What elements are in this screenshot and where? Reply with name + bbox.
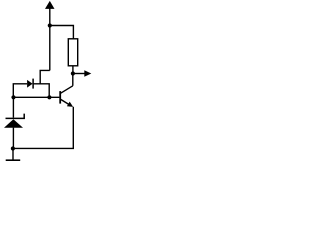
wire node A to resistor top — [50, 26, 74, 39]
wire supply drop to jog — [49, 26, 51, 71]
diode D1 triangle — [27, 80, 32, 88]
wire ground stem — [12, 149, 14, 160]
wire emitter down to bottom rail — [13, 107, 73, 149]
wire zener anode to ground rail — [12, 128, 14, 149]
diode D1 cathode bar — [32, 79, 34, 89]
transistor Q1 emitter lead — [61, 99, 70, 105]
resistor R1 — [68, 39, 77, 66]
wire supply stem — [49, 8, 51, 26]
transistor Q1 collector lead — [61, 86, 73, 93]
zener D2 triangle — [4, 119, 23, 127]
supply arrow V+ — [45, 1, 55, 9]
wire diode anode branch — [13, 84, 27, 98]
node B (collector/output junction) — [71, 71, 75, 75]
wire jog to diode line — [40, 70, 50, 83]
wire base line — [14, 96, 60, 98]
wire zener cathode lead — [12, 97, 14, 117]
transistor Q1 base bar — [59, 91, 61, 104]
ground bar — [6, 159, 21, 161]
node D (base junction) — [47, 95, 51, 99]
wire output lead — [73, 73, 85, 75]
wire diode cathode branch — [34, 84, 50, 98]
node C (zener/base junction) — [11, 95, 15, 99]
node A (supply junction) — [48, 23, 52, 27]
wire resistor bottom to node B — [72, 66, 74, 74]
wire collector vertical — [72, 74, 74, 86]
output arrow — [84, 70, 91, 76]
transistor Q1 emitter arrow — [67, 102, 73, 107]
zener D2 cathode bar — [6, 114, 25, 119]
ground node dot — [11, 146, 15, 150]
